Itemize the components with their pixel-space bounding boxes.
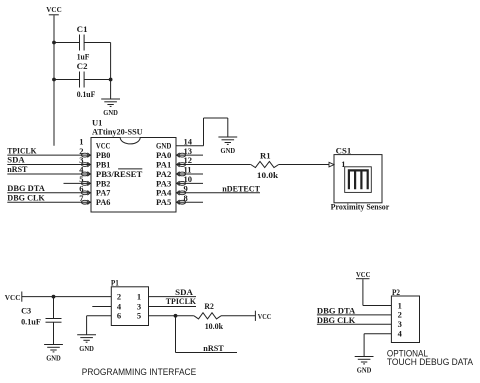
wire R1 to CS1 bbox=[279, 164, 329, 166]
wire C2 right bbox=[84, 79, 110, 81]
power flag VCC (bottom left) bbox=[5, 292, 22, 302]
power flag VCC (top left) bbox=[46, 5, 61, 15]
label TOUCH DEBUG DATA bbox=[387, 357, 474, 367]
svg-text:P2: P2 bbox=[392, 287, 400, 297]
wire C3 bottom bbox=[53, 322, 55, 344]
node junction VCC/C2 bbox=[52, 78, 56, 82]
U1 pin number 6 bbox=[79, 184, 83, 194]
svg-text:DBG CLK: DBG CLK bbox=[7, 193, 45, 203]
U1 pin 10 arrow bbox=[177, 181, 186, 186]
svg-text:1uF: 1uF bbox=[77, 51, 90, 61]
U1 pin 8 arrow bbox=[177, 200, 186, 205]
sensor CS1 body bbox=[334, 155, 382, 203]
wire/net nRST (P1) bbox=[176, 316, 238, 353]
P2 pin number 3 bbox=[398, 319, 402, 329]
U1 pin name PA4 bbox=[156, 188, 172, 198]
U1 pin 9 arrow bbox=[177, 191, 186, 196]
capacitor C3 bbox=[21, 306, 61, 327]
connector P2 refdes bbox=[392, 287, 400, 297]
U1 pin name VCC bbox=[96, 141, 111, 151]
IC U1 body bbox=[91, 138, 176, 213]
U1 pin number 10 bbox=[184, 174, 193, 184]
capacitor C2 bbox=[77, 61, 96, 99]
U1 pin number 9 bbox=[184, 184, 188, 194]
P2 pin number 4 bbox=[398, 329, 403, 339]
resistor R1 bbox=[251, 151, 279, 180]
U1 pin name PB2 bbox=[96, 178, 111, 188]
svg-text:2: 2 bbox=[117, 291, 121, 301]
U1 pin 11 arrow bbox=[177, 172, 186, 177]
wire/net nRST bbox=[7, 164, 91, 174]
CS1 electrode comb bbox=[349, 170, 368, 189]
wire R2 to VCC bbox=[221, 315, 255, 317]
wire U1 pin 11 stub bbox=[176, 173, 203, 175]
CS1 pin number 1 bbox=[341, 159, 345, 169]
P2 pin number 2 bbox=[398, 310, 402, 320]
U1 pin 12 arrow bbox=[177, 162, 186, 167]
sensor CS1 refdes bbox=[336, 145, 352, 155]
ground GND (P1 pin 6) bbox=[77, 335, 96, 353]
svg-text:VCC: VCC bbox=[258, 312, 271, 321]
U1 pin number 13 bbox=[184, 146, 193, 156]
svg-text:GND: GND bbox=[221, 146, 236, 155]
wire U1 pin 10 stub bbox=[176, 182, 203, 184]
wire VCC down to U1 pin 1 bbox=[53, 15, 55, 145]
svg-text:PA5: PA5 bbox=[156, 197, 171, 207]
svg-text:5: 5 bbox=[137, 311, 141, 321]
wire P1 pin 5 to R2 bbox=[149, 315, 194, 317]
svg-text:GND: GND bbox=[103, 108, 118, 117]
svg-text:ATtiny20-SSU: ATtiny20-SSU bbox=[92, 126, 143, 136]
U1 pin number 5 bbox=[79, 174, 83, 184]
U1 pin number 4 bbox=[79, 165, 84, 175]
U1 pin 3 arrow bbox=[81, 162, 90, 167]
U1 pin number 7 bbox=[79, 193, 84, 203]
wire U1 pin 12 to R1 bbox=[176, 164, 251, 166]
U1 pin name PA1 bbox=[156, 159, 171, 169]
svg-text:GND: GND bbox=[357, 366, 372, 375]
power flag VCC (P2) bbox=[356, 270, 370, 279]
label Proximity Sensor bbox=[331, 201, 390, 211]
svg-text:10.0k: 10.0k bbox=[257, 170, 278, 180]
wire C3 top bbox=[53, 297, 55, 319]
U1 pin 5 arrow bbox=[81, 181, 90, 186]
svg-text:10.0k: 10.0k bbox=[205, 321, 224, 331]
svg-text:R1: R1 bbox=[260, 151, 271, 161]
U1 pin number 12 bbox=[184, 155, 193, 165]
svg-text:nRST: nRST bbox=[7, 164, 27, 174]
U1 pin number 14 bbox=[184, 136, 193, 146]
svg-text:R2: R2 bbox=[204, 301, 213, 311]
node junction nRST/R2 bbox=[174, 314, 178, 318]
resistor R2 bbox=[194, 301, 223, 331]
wire/net SDA (P1) bbox=[149, 287, 197, 297]
svg-text:6: 6 bbox=[117, 311, 121, 321]
wire/net nDETECT bbox=[176, 184, 260, 194]
U1 pin 7 arrow bbox=[81, 200, 90, 205]
IC U1 value bbox=[92, 126, 143, 136]
U1 pin number 8 bbox=[184, 193, 188, 203]
wire C1 right bbox=[84, 42, 110, 44]
U1 pin 2 arrow bbox=[81, 153, 90, 158]
svg-text:GND: GND bbox=[46, 354, 61, 363]
svg-text:TPICLK: TPICLK bbox=[166, 296, 197, 306]
CS1 electrode frame bbox=[345, 167, 372, 193]
wire/net DBG DTA bbox=[7, 183, 91, 193]
U1 pin name PA0 bbox=[156, 150, 171, 160]
U1 pin number 1 bbox=[79, 136, 83, 146]
power flag VCC (right of R2) bbox=[255, 311, 271, 321]
U1 pin name PA2 bbox=[156, 169, 171, 179]
U1 pin number 3 bbox=[79, 155, 83, 165]
svg-text:VCC: VCC bbox=[5, 293, 21, 302]
label PROGRAMMING INTERFACE bbox=[82, 367, 196, 377]
U1 pin 13 arrow bbox=[177, 153, 186, 158]
U1 pin 4 arrow bbox=[81, 172, 90, 177]
svg-text:0.1uF: 0.1uF bbox=[77, 89, 96, 99]
svg-text:1: 1 bbox=[137, 291, 141, 301]
U1 pin name PB0 bbox=[96, 150, 111, 160]
connector P1 refdes bbox=[111, 278, 119, 288]
ground GND (P2 pin 4) bbox=[355, 357, 374, 375]
U1 pin name PB1 bbox=[96, 159, 111, 169]
U1 pin name PA6 bbox=[96, 197, 111, 207]
svg-text:C3: C3 bbox=[21, 306, 31, 316]
IC U1 refdes bbox=[92, 118, 102, 128]
wire/net SDA bbox=[7, 155, 91, 165]
wire/net TPICLK bbox=[7, 145, 91, 155]
P1 pin number 6 bbox=[117, 311, 121, 321]
wire/net TPICLK (P1) bbox=[149, 296, 197, 306]
wire U1 pin 5 stub bbox=[64, 182, 92, 184]
svg-text:DBG CLK: DBG CLK bbox=[317, 315, 356, 325]
svg-text:PA6: PA6 bbox=[96, 197, 111, 207]
wire P1 pin 6 to GND bbox=[87, 316, 112, 335]
P1 pin number 4 bbox=[117, 301, 122, 311]
wire C1 left bbox=[54, 42, 79, 44]
connector P1 body bbox=[111, 287, 148, 326]
wire VCC to P2 pin 1 bbox=[363, 279, 392, 305]
svg-text:PROGRAMMING INTERFACE: PROGRAMMING INTERFACE bbox=[82, 367, 196, 377]
U1 pin name PA3 bbox=[156, 178, 171, 188]
svg-text:nDETECT: nDETECT bbox=[222, 184, 260, 194]
ground GND (U1 pin 14) bbox=[218, 137, 237, 155]
wire C2 left bbox=[54, 79, 79, 81]
U1 pin name PA5 bbox=[156, 197, 171, 207]
svg-text:VCC: VCC bbox=[356, 270, 370, 279]
svg-text:C2: C2 bbox=[77, 61, 88, 71]
wire/net DBG DTA (P2) bbox=[317, 305, 392, 315]
wire U1 pin 13 stub bbox=[176, 154, 203, 156]
ground GND (caps) bbox=[101, 99, 120, 117]
label OPTIONAL bbox=[387, 349, 428, 359]
U1 pin name PB3/RESET bbox=[96, 169, 143, 179]
capacitor C1 bbox=[77, 24, 90, 61]
P1 pin number 3 bbox=[137, 301, 141, 311]
wire VCC to P1 pin 2 bbox=[22, 296, 112, 298]
CS1 pin 1 arrow bbox=[329, 162, 334, 167]
wire U1 pin 14 to GND bbox=[176, 118, 228, 146]
wire cap ground rail bbox=[110, 43, 112, 100]
U1 pin number 2 bbox=[79, 146, 83, 156]
ground GND (C3) bbox=[44, 345, 63, 363]
wire U1 pin 8 stub bbox=[176, 201, 203, 203]
P1 pin number 1 bbox=[137, 291, 141, 301]
wire/net DBG CLK (P2) bbox=[317, 315, 392, 325]
U1 pin name PA7 bbox=[96, 188, 111, 198]
wire/net DBG CLK bbox=[7, 193, 91, 203]
svg-text:4: 4 bbox=[398, 329, 403, 339]
svg-text:VCC: VCC bbox=[46, 5, 61, 14]
svg-text:nRST: nRST bbox=[203, 343, 224, 353]
connector P2 body bbox=[391, 296, 419, 343]
P1 pin number 2 bbox=[117, 291, 121, 301]
node junction C2/GND rail bbox=[109, 78, 113, 82]
svg-text:P1: P1 bbox=[111, 278, 119, 288]
svg-text:TOUCH DEBUG DATA: TOUCH DEBUG DATA bbox=[387, 357, 474, 367]
wire P1 pin 4 stub bbox=[92, 306, 111, 308]
svg-text:GND: GND bbox=[79, 344, 94, 353]
svg-text:C1: C1 bbox=[77, 24, 88, 34]
P1 pin number 5 bbox=[137, 311, 141, 321]
node junction VCC/C3 bbox=[52, 295, 56, 299]
wire P2 pin 4 to GND bbox=[364, 334, 391, 357]
U1 pin name GND bbox=[156, 141, 171, 151]
svg-text:Proximity Sensor: Proximity Sensor bbox=[331, 201, 390, 211]
node junction VCC/C1 bbox=[52, 41, 56, 45]
U1 pin number 11 bbox=[184, 165, 192, 175]
svg-text:CS1: CS1 bbox=[336, 145, 352, 155]
svg-text:0.1uF: 0.1uF bbox=[21, 316, 41, 326]
U1 pin 6 arrow bbox=[81, 191, 90, 196]
P2 pin number 1 bbox=[398, 300, 402, 310]
